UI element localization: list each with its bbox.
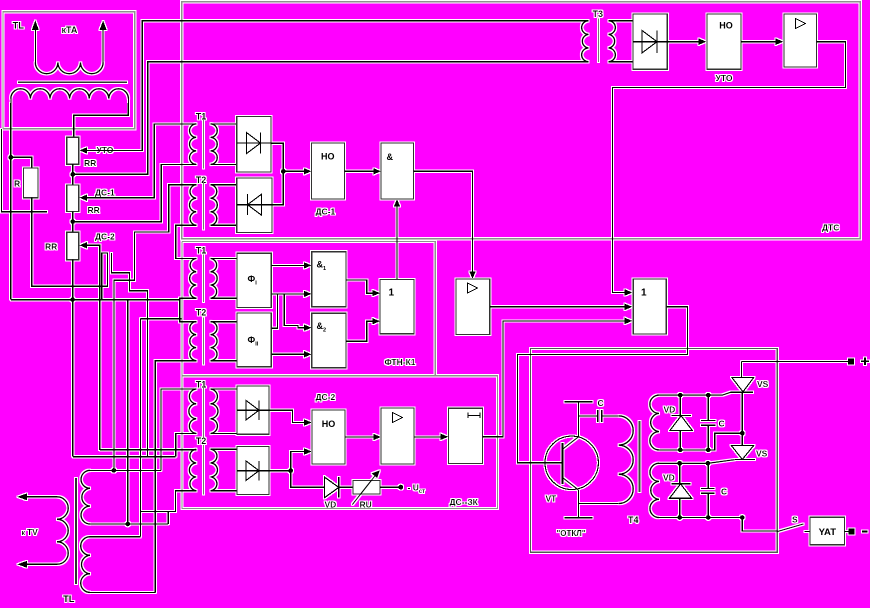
section box ДТС (outline) [182, 2, 861, 239]
block 1 (OR ФТН) [380, 279, 414, 333]
node (junction on left vertical) [9, 155, 14, 160]
wire (T2 ФТН top to left bundle) [141, 318, 182, 320]
rheostat RU [352, 470, 380, 509]
node (diode outputs junction) [281, 169, 286, 174]
svg-text:ДТС: ДТС [822, 223, 839, 233]
wire (&2 output to OR ФТН) [346, 321, 373, 341]
thyristor VS1 [731, 362, 769, 393]
wire (T2 ДС-1 top to left bundle) [114, 185, 196, 471]
node (secondary 1 junctions) [112, 468, 117, 473]
transistor VT [545, 436, 598, 503]
wire (TL winding link) [167, 511, 169, 524]
terminal - [849, 529, 868, 535]
svg-text:C: C [719, 419, 725, 429]
wire (T1 ДС-1 to diode block) [211, 124, 237, 164]
svg-text:C: C [721, 487, 727, 497]
switch S [777, 515, 803, 532]
svg-text:TL: TL [13, 21, 25, 32]
wire (switch to YAT) [805, 530, 811, 532]
wire (УТО output long path to OR input 1) [613, 42, 846, 293]
transformer T2 (ДС-ЗК) [189, 436, 217, 495]
wire (T2 ФТН bottom to TL winding) [155, 361, 196, 593]
svg-text:VS: VS [757, 379, 769, 389]
wire (junction up to НО ДС-2) [291, 452, 305, 471]
delay block ⊢ (ДС-ЗК) [448, 408, 482, 463]
svg-text:ДС-1: ДС-1 [316, 207, 336, 217]
block Ф I [237, 253, 271, 307]
transformer T4 core [639, 421, 641, 492]
wire (R bottom staircase to bus) [32, 198, 108, 300]
wire (junction to resistor R) [11, 157, 32, 168]
node (junction below RR ДС-1) [71, 219, 76, 224]
svg-text:VD: VD [664, 405, 676, 415]
capacitor C (secondary 2) [701, 463, 727, 517]
block НО (УТО) [707, 14, 741, 69]
wire (cross-link Ф I line to &2) [284, 294, 304, 328]
wire (T1 ДС-ЗК bottom to bus) [176, 434, 197, 457]
block & (ДС-1) [381, 143, 414, 199]
wire (junction to transformer T3 bottom) [73, 62, 589, 175]
node (rail dots 2) [678, 448, 683, 453]
svg-text:"ОТКЛ": "ОТКЛ" [557, 529, 586, 538]
block Ф II [237, 313, 271, 367]
diode VD (secondary 1) [664, 395, 693, 450]
svg-text:VT: VT [546, 494, 558, 504]
svg-text:НО: НО [322, 419, 336, 429]
wire (left bundle vertical to TL winding) [140, 319, 142, 537]
rheostat RR (ДС-1) [67, 185, 100, 215]
diode VD (secondary 2) [663, 463, 692, 517]
wire (bus to ФТН transformers) [11, 299, 180, 301]
wire (cathode rail to switch S) [742, 518, 777, 531]
wire (bundle vertical to secondary 1) [127, 300, 129, 524]
wire (TL secondary left end down to bus) [10, 103, 12, 300]
wire (staircase to TL lower area) [111, 253, 147, 457]
svg-text:1: 1 [389, 288, 395, 299]
amplifier block (УТО) [784, 14, 817, 67]
transformer T1 (ФТН) [190, 246, 218, 303]
wire (Ф I output 1 to &1) [271, 264, 304, 266]
current transformer TL primary winding (кТА) [32, 21, 107, 74]
wire (RR УТО bottom to junction) [72, 164, 74, 185]
transformer T1 (ДС-ЗК) [189, 380, 218, 438]
wire (T2 ДС-1 bottom series link to T1 ФТН) [176, 225, 197, 258]
rheostat RR (ДС-2) [45, 232, 87, 259]
svg-text:YAT: YAT [819, 527, 837, 538]
wire (secondary 2 bottom rail) [659, 517, 742, 519]
wire (secondary 1 bottom rail) [659, 433, 742, 450]
svg-text:T2: T2 [196, 308, 207, 318]
capacitor C (secondary 1) [701, 395, 725, 450]
node (rail dots) [678, 393, 683, 398]
transformer T1 (ДС-1) [190, 112, 218, 169]
svg-text:НО: НО [321, 152, 335, 162]
wire (НО to & ДС-1) [345, 170, 374, 172]
rheostat RR (УТО) [67, 137, 97, 168]
wire (amplifier to OR input 2) [490, 306, 626, 308]
transformer T2 (ФТН) [190, 308, 217, 365]
wire (T3 secondary to diode block) [609, 21, 634, 62]
wire (ФТН output up into & ДС-1) [396, 205, 398, 279]
wire (secondary 1 top rail) [659, 392, 731, 395]
wire (junction to T1 ДС-1 bottom) [73, 164, 197, 221]
svg-text:T1: T1 [196, 112, 207, 122]
wire (amplifier to delay block) [414, 436, 441, 438]
svg-text:1: 1 [641, 288, 647, 299]
node (rail dots 3) [677, 515, 682, 520]
wire (T2 ФТН to block Ф II) [211, 322, 238, 361]
terminal -Uст [398, 483, 425, 496]
wire (RU to -Uст terminal) [380, 486, 401, 488]
svg-text:T4: T4 [628, 515, 639, 525]
wire (OR output to transistor base) [518, 307, 688, 463]
svg-text:кТА: кТА [62, 25, 78, 35]
wire (YAT output) [845, 530, 849, 532]
transformer T4 secondary 1 winding [650, 395, 659, 450]
transformer T4 primary [578, 416, 633, 504]
svg-text:RR: RR [88, 205, 100, 215]
wire (anode to + terminal) [742, 361, 852, 363]
voltage transformer TL core [75, 478, 77, 584]
wire (ДС-2 tap down to bus) [87, 245, 100, 449]
wire (T1 ФТН to block Ф I) [211, 259, 238, 299]
svg-text:RR: RR [84, 158, 96, 168]
block &2 [312, 313, 346, 368]
wire (emitter down) [577, 490, 579, 518]
amplifier block (ДТС output) [456, 279, 490, 335]
rail symbol (collector supply) [564, 401, 592, 403]
wire (T2 ДС-1 to diode block) [211, 185, 237, 226]
block 1 (OR output logic) [633, 279, 666, 334]
terminal + [848, 358, 869, 366]
svg-text:VS: VS [756, 449, 768, 459]
node (junction ДС-ЗК) [288, 468, 293, 473]
wire (& ДС-1 output to amplifier) [414, 171, 473, 272]
wire (ДС-1 tap to T1 ДС-1 top) [87, 124, 196, 198]
wire (T2 ДС-ЗК to diode block) [211, 449, 238, 491]
wire (junction down to VD) [291, 471, 325, 488]
wire (secondary 2 top rail) [659, 460, 735, 464]
svg-text:T1: T1 [196, 246, 207, 256]
wire (Ф II output 2 to &2) [271, 353, 304, 355]
svg-text:VD: VD [325, 500, 337, 510]
section box ДС-ЗК (outline) [182, 241, 498, 508]
wire (RR ДС-1 bottom through junction) [72, 212, 74, 233]
wire (junction to НО ДС-1 input) [283, 170, 304, 172]
transformer T2 (ДС-1) [190, 175, 218, 229]
node (junction on bus) [70, 297, 75, 302]
wire (&1 output to OR ФТН) [346, 280, 373, 293]
resistor R [14, 168, 38, 198]
svg-text:S: S [792, 515, 798, 525]
diode block (T1 ДС-ЗК) [237, 386, 269, 434]
wire (diode block 1 to НО ДС-2) [269, 410, 305, 422]
wire (T1 ФТН bottom series link to T2 ФТН) [180, 298, 197, 321]
svg-text:T3: T3 [593, 9, 604, 19]
transformer T4 secondary 2 winding [650, 463, 659, 517]
wire (TL secondary right end to resistor RR УТО) [74, 103, 129, 137]
rail symbol ОТКЛ (emitter) [564, 517, 592, 519]
block YAT [810, 517, 845, 545]
node (junction below RR УТО) [71, 172, 76, 177]
wire (diode block to НО УТО) [667, 41, 699, 43]
wire (cross-link Ф II to &1 line) [271, 294, 277, 328]
wire (diode outputs to НО ДС-1) [271, 143, 283, 205]
svg-text:&: & [387, 152, 394, 162]
diode block (T2 ДС-1) [237, 178, 272, 233]
diode VD (ДС-ЗК) [325, 477, 339, 509]
wire (T1 ДС-ЗК to diode block) [211, 389, 238, 434]
wire (T1 ДС-ЗК top to TL winding) [161, 389, 196, 470]
block НО (ДС-2) [312, 410, 345, 464]
wire (diode block 2 output) [269, 470, 291, 472]
voltage transformer TL primary (кTV) [18, 493, 69, 568]
wire (bus 2) [73, 456, 176, 458]
section box ОТКЛ (outline) [531, 349, 778, 553]
svg-text:VD: VD [663, 473, 675, 483]
svg-text:T2: T2 [196, 175, 207, 185]
svg-text:ДС-1: ДС-1 [95, 188, 115, 198]
svg-text:ФТН-К1: ФТН-К1 [385, 357, 416, 367]
svg-text:ДС-2: ДС-2 [95, 232, 115, 242]
block НО (ДС-1) [312, 143, 345, 199]
svg-text:RR: RR [45, 242, 57, 252]
thyristor VS2 [731, 392, 767, 459]
svg-text:C: C [598, 398, 604, 408]
box frame TL (кТА) [3, 12, 135, 129]
transformer T3 [582, 9, 616, 62]
wire (bus 1 to T2 ДС-ЗК top) [100, 449, 197, 451]
svg-text:R: R [14, 179, 20, 189]
voltage transformer TL secondary 2 [81, 537, 156, 593]
diode block (T1 ДС-1) [237, 116, 271, 172]
block &1 [312, 252, 346, 307]
wire (НО ДС-2 to amplifier) [345, 436, 374, 438]
wire (УТО tap to transformer T3 top) [87, 21, 589, 151]
svg-text:НО: НО [719, 21, 733, 31]
wire (resistor chain bottom long vertical) [72, 260, 74, 457]
svg-text:TL: TL [63, 594, 75, 605]
wire (stub at far left) [2, 129, 48, 212]
wire (collector vertical) [577, 402, 579, 437]
svg-text:ДС-2: ДС-2 [316, 392, 336, 402]
capacitor C (VT) [578, 410, 618, 422]
node (rail dot) [706, 461, 711, 466]
svg-text:T2: T2 [196, 436, 207, 446]
diode block (T3 УТО) [633, 14, 667, 69]
svg-text:RU: RU [360, 500, 372, 510]
wire (delay block output to OR input 3) [483, 321, 626, 437]
voltage transformer TL secondary 1 [81, 470, 168, 524]
section box ФТН-К1 (outline) [182, 241, 435, 375]
diode block (T2 ДС-ЗК) [237, 446, 269, 494]
wire (Ф I output 2 to &1) [271, 293, 304, 295]
svg-text:УТО: УТО [716, 73, 733, 83]
current transformer TL core [18, 81, 127, 83]
svg-text:ДС--ЗК: ДС--ЗК [450, 497, 479, 507]
wire (T2 ДС-ЗК bottom to TL winding) [141, 491, 197, 512]
wire (НО УТО to amplifier) [741, 41, 776, 43]
amplifier block (ДС-2) [381, 408, 414, 464]
svg-text:T1: T1 [196, 380, 207, 390]
wire (VD to RU) [339, 486, 353, 488]
current transformer TL secondary winding [11, 89, 129, 104]
